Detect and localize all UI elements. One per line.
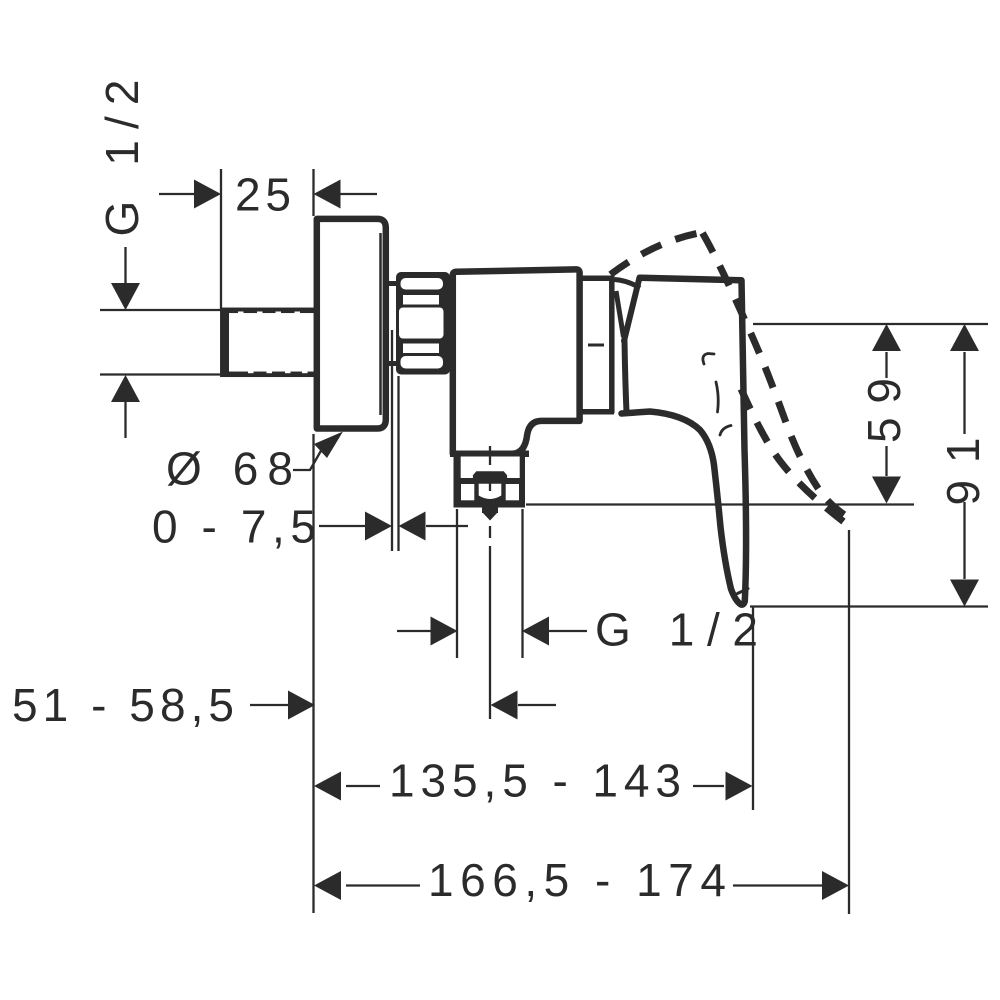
arrow leader d68 (points up-right) bbox=[314, 432, 343, 459]
extension line from dashed tail tip (x=849) bbox=[848, 530, 850, 914]
arrow 59 top (points up) bbox=[872, 324, 901, 351]
G1/2 top reference line upper (y=310) bbox=[100, 309, 221, 311]
svg-text:25: 25 bbox=[235, 169, 295, 221]
reference line y=606.5 bbox=[750, 605, 988, 607]
lever surface line a bbox=[703, 354, 714, 365]
outlet spout tip bbox=[482, 507, 498, 513]
arrow 91 bottom (points down) bbox=[950, 580, 979, 607]
tail tip inner dash bbox=[738, 589, 749, 594]
leaders 135,5-143 bbox=[346, 785, 380, 787]
outlet extension lines bbox=[456, 509, 458, 658]
long extension line x=313.5 below escutcheon bbox=[312, 434, 314, 913]
G1/2 top reference line lower (y=374.5) bbox=[100, 373, 220, 375]
leader 25 right bbox=[340, 193, 377, 195]
svg-text:G 1/2: G 1/2 bbox=[96, 76, 148, 237]
body bottom edge extension bbox=[450, 451, 529, 458]
hood front slanted edge bbox=[624, 278, 640, 342]
arrow 0-7,5 right (points left) bbox=[399, 512, 426, 541]
svg-text:G 1/2: G 1/2 bbox=[595, 604, 762, 656]
lever surface line c bbox=[720, 426, 731, 436]
lever underside sweeping to tail tip bbox=[622, 412, 741, 605]
reference line y=504.5 bbox=[526, 503, 914, 505]
escutcheon inner face line bbox=[379, 233, 382, 415]
svg-text:51 - 58,5: 51 - 58,5 bbox=[12, 679, 238, 731]
G1/2 top dim stem above bbox=[124, 247, 126, 284]
wall pipe nipple with thread marks bbox=[223, 308, 320, 377]
extension lines of 0-7,5 dim bbox=[391, 330, 393, 551]
leaders 166,5-174 bbox=[346, 884, 420, 886]
arrow 25 right (points left) bbox=[314, 180, 341, 209]
lever in raised position (dashed) bbox=[611, 233, 852, 522]
arrow 25 left (points right) bbox=[194, 180, 221, 209]
dashed top arc bbox=[611, 234, 698, 275]
arrow 51-58,5 right-pointing bbox=[288, 691, 315, 720]
svg-text:135,5 - 143: 135,5 - 143 bbox=[389, 755, 685, 807]
dashed back/tail upper edge bbox=[703, 233, 852, 519]
arrow bottom G1/2 right (points left) bbox=[522, 617, 549, 646]
91 dim stems bbox=[963, 352, 965, 434]
lever handle (solid, down position) bbox=[622, 278, 749, 605]
union nut with grooves bbox=[396, 272, 450, 375]
shower outlet assembly bbox=[454, 452, 526, 521]
lever top edge bbox=[641, 278, 741, 281]
arrow 166,5-174 left end (points left) bbox=[314, 871, 341, 900]
outlet housing block bbox=[454, 452, 526, 508]
leader 25 left bbox=[159, 193, 196, 195]
arrow G1/2 top upper (points down) bbox=[111, 283, 140, 310]
arrow bottom G1/2 left (points right) bbox=[431, 617, 458, 646]
arrow 135,5-143 right end (points right) bbox=[726, 772, 753, 801]
leaders of bottom G1/2 dim bbox=[397, 630, 432, 632]
leader of diameter 68 bbox=[293, 449, 322, 470]
check valve hex cap bbox=[473, 471, 507, 478]
tick mark inside cartridge zone bbox=[588, 344, 604, 347]
arrow G1/2 top lower (points up) bbox=[111, 375, 140, 402]
lever back edge and tail bbox=[741, 280, 747, 604]
outlet centerline bbox=[489, 446, 491, 719]
svg-text:166,5 - 174: 166,5 - 174 bbox=[428, 854, 730, 906]
arrow 0-7,5 left (points right) bbox=[365, 512, 392, 541]
arrow 166,5-174 right end (points right) bbox=[822, 871, 849, 900]
arrow 59 bottom (points down) bbox=[872, 477, 901, 504]
dashed tail lower edge bbox=[741, 389, 844, 522]
extension line right of 25 dim, top segment (x=313.5) bbox=[312, 169, 314, 216]
leaders 0-7,5 bbox=[319, 525, 365, 527]
arrow 51-58,5 left-pointing bbox=[491, 691, 518, 720]
G1/2 top dim stem below bbox=[124, 401, 126, 438]
reference line y=324 bbox=[753, 323, 988, 325]
extension line left of 25 dim (x=221) bbox=[220, 169, 222, 310]
dome cap arc behind lever hood bbox=[615, 280, 641, 289]
lever surface line b bbox=[716, 382, 718, 412]
escutcheon plate (seen from side) bbox=[317, 219, 386, 429]
cartridge housing ring bbox=[582, 276, 614, 413]
arrow 91 top (points up) bbox=[950, 324, 979, 351]
valve body bbox=[453, 269, 580, 453]
dome cap front edge bbox=[616, 291, 624, 337]
extension line from solid tail tip (x=753) bbox=[752, 607, 754, 810]
leaders 51-58,5 bbox=[250, 704, 288, 706]
hood front lower edge bbox=[625, 341, 627, 413]
svg-text:0 - 7,5: 0 - 7,5 bbox=[152, 501, 320, 553]
neck between escutcheon and union nut bbox=[386, 284, 399, 364]
arrow 135,5-143 left end (points left) bbox=[314, 772, 341, 801]
59 dim stems bbox=[885, 352, 887, 378]
